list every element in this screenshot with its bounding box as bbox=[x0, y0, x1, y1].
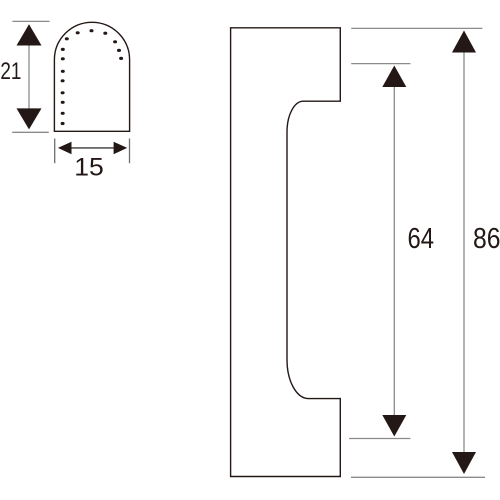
svg-text:21: 21 bbox=[0, 58, 21, 85]
svg-text:64: 64 bbox=[408, 223, 435, 255]
dim 86: dimension line bbox=[463, 45, 465, 460]
dim 15: dimension line bbox=[60, 147, 124, 149]
handle side profile outline bbox=[231, 28, 341, 477]
dim 15: extension ticks bbox=[54, 139, 56, 164]
dim 86: arrowheads bbox=[452, 31, 476, 53]
dim 21: extension lines bbox=[12, 20, 49, 22]
dim 15: arrowheads bbox=[58, 142, 72, 155]
svg-text:15: 15 bbox=[74, 154, 104, 182]
stipple dots inside arch bbox=[61, 29, 124, 125]
dim 64: arrowheads bbox=[382, 66, 406, 88]
dim 64: dimension line bbox=[393, 80, 395, 422]
dim 64: extension lines bbox=[351, 63, 410, 65]
dim 21: arrowheads bbox=[17, 24, 42, 45]
arch cross-section outline bbox=[54, 22, 129, 131]
dim 86: extension lines bbox=[351, 27, 482, 29]
dim 21: dimension line bbox=[28, 40, 30, 114]
svg-text:86: 86 bbox=[473, 223, 500, 255]
